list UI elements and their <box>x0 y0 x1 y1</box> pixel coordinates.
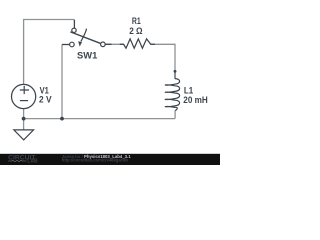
wire resistor to inductor top <box>151 44 175 71</box>
watermark bar <box>0 154 220 165</box>
svg-text:2 Ω: 2 Ω <box>129 26 142 36</box>
voltage source V1 <box>12 84 36 108</box>
svg-text:SW1: SW1 <box>77 51 97 61</box>
SW1 top terminal circle <box>72 28 76 32</box>
resistor R1 <box>120 39 155 48</box>
wire ground stub <box>23 119 25 130</box>
ground <box>14 130 34 140</box>
SW1 top terminal lead <box>73 20 75 28</box>
inductor L1 top node dot <box>174 70 177 73</box>
wire left branch vertical <box>61 45 63 119</box>
SW1 toggle arrow curve <box>81 29 87 42</box>
SW1 right terminal circle <box>101 42 106 47</box>
SW1 arrowhead <box>78 41 82 46</box>
inductor L1 <box>165 71 179 110</box>
SW1 left terminal lead <box>62 44 70 46</box>
SW1 left terminal circle <box>70 42 75 47</box>
svg-text:20 mH: 20 mH <box>183 95 208 105</box>
wire top-left: V1 top up and across to switch <box>24 20 75 85</box>
svg-text:LAB: LAB <box>27 159 38 165</box>
wire switch to resistor <box>105 43 123 45</box>
svg-text:R1: R1 <box>132 16 141 26</box>
switch SW1 <box>62 20 112 47</box>
wire inductor bottom lead <box>174 110 176 118</box>
SW1 bar <box>70 32 103 44</box>
junction dot V1 bottom <box>22 117 26 121</box>
svg-text:http://circuitlab.com/c/v48kga: http://circuitlab.com/c/v48kgac9b <box>62 157 129 162</box>
V1 plus sign <box>20 86 29 94</box>
wire bottom rail <box>24 118 175 120</box>
watermark logo squiggle <box>8 160 26 162</box>
junction dot left branch bottom <box>60 117 64 121</box>
wire V1 bottom to junction <box>23 109 25 119</box>
SW1 right terminal lead <box>105 43 111 45</box>
V1 minus sign <box>20 100 28 102</box>
svg-text:2 V: 2 V <box>39 95 52 105</box>
